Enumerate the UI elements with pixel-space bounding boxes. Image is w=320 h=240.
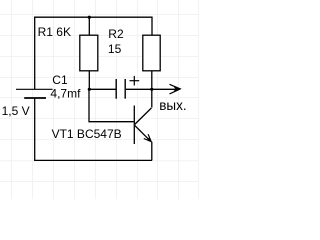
svg-text:вых.: вых. [159,98,186,113]
svg-text:C1: C1 [52,73,68,87]
svg-text:1,5 V: 1,5 V [2,104,30,118]
svg-text:4,7mf: 4,7mf [50,87,81,101]
svg-text:15: 15 [108,42,122,56]
svg-text:R1 6K: R1 6K [38,25,71,39]
svg-text:VT1 BC547B: VT1 BC547B [52,127,122,141]
svg-text:R2: R2 [108,27,124,41]
